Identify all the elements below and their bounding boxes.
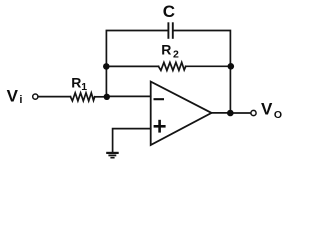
wire node A up to node B: [105, 66, 107, 96]
wire node B to R2: [106, 65, 158, 67]
wire R1 to node A: [95, 96, 107, 98]
op-amp U1: [151, 82, 212, 145]
svg-text:R: R: [71, 74, 81, 90]
svg-text:R: R: [161, 41, 171, 57]
wire node D to Vo terminal: [230, 112, 250, 114]
capacitor C: [168, 22, 172, 39]
svg-text:2: 2: [173, 48, 179, 60]
op-amp non-inverting input plus sign: [154, 120, 166, 133]
input terminal circle Vi: [33, 94, 38, 99]
wire node C down to node D: [229, 66, 231, 113]
wire node B up and right to capacitor: [106, 31, 167, 67]
svg-text:1: 1: [81, 81, 87, 93]
svg-text:V: V: [7, 87, 19, 106]
resistor R2: [159, 62, 186, 70]
node D junction dot: [227, 110, 234, 117]
wire op-amp non-inverting input to ground: [113, 129, 151, 152]
wire node A to op-amp inverting input: [107, 95, 151, 97]
svg-text:i: i: [19, 94, 22, 106]
svg-text:V: V: [261, 100, 273, 119]
wire Vi terminal to R1: [38, 96, 70, 98]
node B junction dot: [103, 63, 110, 70]
node C junction dot: [228, 63, 235, 70]
resistor R1: [71, 93, 95, 101]
wire capacitor to top-right corner down to node C: [173, 31, 230, 67]
wire R2 to node C: [186, 65, 231, 67]
output terminal circle Vo: [251, 110, 256, 115]
op-amp inverting input minus sign: [154, 98, 165, 100]
node A junction dot: [104, 94, 110, 100]
svg-text:O: O: [274, 109, 282, 121]
svg-text:C: C: [163, 2, 175, 21]
ground: [106, 153, 119, 158]
wire op-amp output to node D: [212, 112, 231, 114]
